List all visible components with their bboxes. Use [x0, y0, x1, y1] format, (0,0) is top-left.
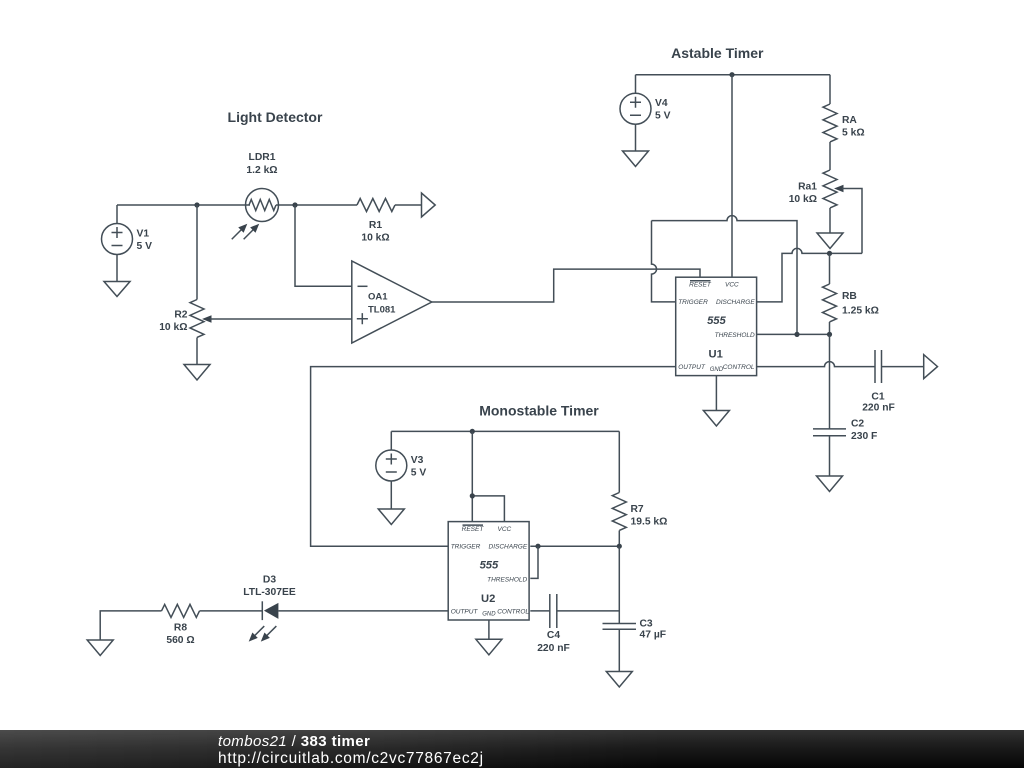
- wire Ra1 wiper return: [842, 189, 862, 254]
- ground under C3: [606, 672, 632, 688]
- wire RA to Ra1: [829, 142, 831, 170]
- svg-text:CONTROL: CONTROL: [497, 608, 529, 615]
- svg-text:GND: GND: [482, 612, 496, 618]
- svg-text:R2: R2: [174, 310, 187, 321]
- svg-text:5 V: 5 V: [137, 241, 153, 252]
- wire U2 discharge to R7: [530, 545, 619, 547]
- svg-text:RESET: RESET: [462, 526, 485, 533]
- svg-text:CONTROL: CONTROL: [723, 364, 755, 371]
- wire RA lead: [829, 75, 831, 104]
- svg-text:19.5 kΩ: 19.5 kΩ: [631, 517, 668, 528]
- wire Ra1 to ground: [829, 208, 831, 233]
- node threshold junctions: [794, 332, 799, 337]
- wire R7 top lead: [618, 431, 620, 492]
- resistor RA: [823, 104, 865, 142]
- ground at R8: [87, 640, 113, 656]
- svg-text:Astable Timer: Astable Timer: [671, 45, 764, 61]
- LED D3: [243, 575, 296, 645]
- svg-text:1.25 kΩ: 1.25 kΩ: [842, 306, 879, 317]
- footer url line: [218, 750, 484, 768]
- potentiometer Ra1: [789, 170, 844, 208]
- svg-text:OUTPUT: OUTPUT: [451, 609, 479, 616]
- resistor R8: [162, 604, 200, 646]
- svg-text:U2: U2: [481, 593, 495, 605]
- footer logo CIRCUIT: [44, 730, 177, 758]
- voltage source V1: [102, 205, 153, 282]
- svg-text:10 kΩ: 10 kΩ: [789, 194, 817, 205]
- wire control to C1 with hop: [757, 362, 875, 367]
- photoresistor LDR1: [229, 152, 278, 242]
- svg-text:Ra1: Ra1: [798, 182, 817, 193]
- svg-text:RESET: RESET: [689, 282, 712, 289]
- node discharge junctions: [535, 544, 540, 549]
- node junction LDR1 output: [292, 202, 297, 207]
- op-amp OA1: [352, 261, 432, 343]
- ground under Ra1: [817, 233, 843, 249]
- ground under C2: [817, 476, 843, 492]
- ground under U2: [476, 639, 502, 655]
- svg-text:VCC: VCC: [725, 282, 739, 289]
- wire threshold node to C2: [829, 334, 831, 429]
- footer bar: [0, 730, 1024, 768]
- wire U1 output to U2 trigger: [311, 367, 676, 547]
- monostable top rail wire: [391, 430, 619, 432]
- svg-text:220 nF: 220 nF: [537, 643, 570, 654]
- wire D3 to R8: [200, 610, 263, 612]
- potentiometer R2: [159, 300, 211, 338]
- svg-text:GND: GND: [710, 367, 724, 373]
- svg-text:OUTPUT: OUTPUT: [678, 364, 706, 371]
- output port flag after C1: [924, 355, 938, 379]
- wire R8 to ground: [100, 611, 161, 640]
- ground under V4: [623, 151, 649, 167]
- voltage source V3: [376, 431, 427, 509]
- svg-text:R1: R1: [369, 220, 382, 231]
- capacitor C3: [603, 619, 667, 672]
- svg-text:RB: RB: [842, 291, 857, 302]
- svg-text:C1: C1: [871, 392, 884, 403]
- node mono rail junction: [470, 429, 475, 434]
- node top rail junction: [729, 72, 734, 77]
- svg-text:D3: D3: [263, 575, 276, 586]
- ground under U1: [703, 411, 729, 427]
- ground under V3: [378, 509, 404, 525]
- svg-text:TRIGGER: TRIGGER: [451, 544, 481, 551]
- ground under R2: [184, 365, 210, 381]
- capacitor C2: [813, 419, 877, 477]
- svg-text:THRESHOLD: THRESHOLD: [715, 332, 755, 339]
- svg-text:5 kΩ: 5 kΩ: [842, 128, 865, 139]
- wire U1 GND stub: [715, 376, 717, 411]
- 555 timer U2: [448, 522, 529, 620]
- svg-text:Monostable Timer: Monostable Timer: [479, 403, 599, 419]
- svg-text:C3: C3: [640, 619, 653, 630]
- resistor R7: [612, 493, 667, 547]
- svg-text:DISCHARGE: DISCHARGE: [716, 299, 755, 306]
- svg-text:LTL-307EE: LTL-307EE: [243, 587, 296, 598]
- wire R1 to port: [395, 204, 422, 206]
- footer logo resistor-diode glyph: [45, 754, 127, 765]
- wire threshold: [757, 333, 830, 335]
- wire U2 GND stub: [488, 620, 490, 639]
- resistor RB: [823, 253, 879, 334]
- svg-text:Light Detector: Light Detector: [228, 109, 323, 125]
- svg-text:5 V: 5 V: [411, 468, 427, 479]
- svg-text:C2: C2: [851, 419, 864, 430]
- svg-text:THRESHOLD: THRESHOLD: [487, 577, 527, 584]
- svg-text:C4: C4: [547, 630, 560, 641]
- wire junction to R2: [196, 205, 198, 300]
- svg-text:TRIGGER: TRIGGER: [678, 299, 708, 306]
- svg-text:555: 555: [480, 559, 499, 571]
- wire VCC vertical: [731, 75, 733, 278]
- footer title line: [218, 733, 370, 750]
- wire trigger vertical with hop: [652, 221, 676, 302]
- wire R2 wiper to op-amp + input: [210, 318, 352, 320]
- svg-text:RA: RA: [842, 115, 857, 126]
- 555 timer U1: [676, 277, 757, 375]
- wire trigger-threshold link top: [652, 216, 798, 335]
- output port flag after R1: [422, 193, 436, 217]
- wire C1 to port: [882, 366, 924, 368]
- svg-text:1.2 kΩ: 1.2 kΩ: [246, 165, 277, 176]
- svg-text:LDR1: LDR1: [249, 152, 276, 163]
- wire U2 output to D3: [278, 610, 448, 612]
- node RB top junction: [827, 251, 832, 256]
- svg-text:R8: R8: [174, 623, 187, 634]
- wire V1 to LDR1: [117, 204, 250, 206]
- wire discharge node to C3: [618, 546, 620, 623]
- svg-text:555: 555: [707, 315, 726, 327]
- wire discharge to wiper net: [757, 248, 862, 302]
- wire LDR node to op-amp - input: [295, 205, 352, 286]
- resistor R1: [357, 199, 395, 244]
- svg-text:10 kΩ: 10 kΩ: [159, 322, 187, 333]
- svg-text:V4: V4: [655, 98, 668, 109]
- svg-text:5 V: 5 V: [655, 111, 671, 122]
- wire discharge-threshold loop: [530, 546, 538, 578]
- capacitor C4: [537, 594, 570, 654]
- wire R2 to ground: [196, 338, 198, 365]
- capacitor C1: [862, 350, 895, 414]
- svg-text:220 nF: 220 nF: [862, 403, 895, 414]
- voltage source V4: [620, 75, 671, 151]
- svg-text:DISCHARGE: DISCHARGE: [489, 544, 528, 551]
- wire LDR1 to R1: [276, 204, 357, 206]
- svg-text:V3: V3: [411, 455, 424, 466]
- svg-text:U1: U1: [709, 349, 723, 361]
- svg-text:560 Ω: 560 Ω: [166, 635, 194, 646]
- node junction at R2 branch: [194, 202, 199, 207]
- wire V3 rail to RESET and VCC of U2: [472, 431, 504, 521]
- wire U2 control to C4: [530, 610, 550, 612]
- svg-text:R7: R7: [631, 504, 644, 515]
- node reset/vcc link: [470, 493, 475, 498]
- svg-text:47 µF: 47 µF: [640, 630, 667, 641]
- svg-text:230 F: 230 F: [851, 431, 877, 442]
- svg-text:V1: V1: [137, 229, 150, 240]
- svg-text:10 kΩ: 10 kΩ: [361, 233, 389, 244]
- astable top rail wire: [636, 74, 831, 76]
- svg-text:TL081: TL081: [368, 305, 396, 316]
- wire C4 to C3 node: [557, 610, 620, 612]
- ground under V1: [104, 282, 130, 297]
- svg-text:VCC: VCC: [498, 526, 512, 533]
- svg-text:OA1: OA1: [368, 292, 388, 303]
- wire op-amp output to U1 RESET: [432, 269, 700, 302]
